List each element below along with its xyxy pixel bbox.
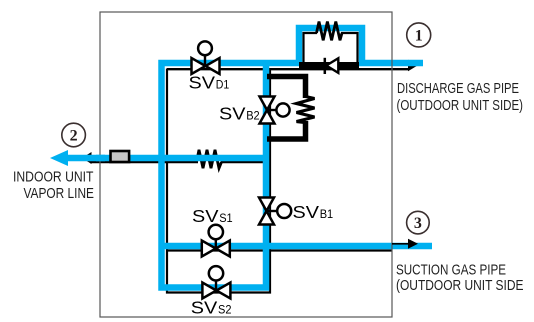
svg-text:D1: D1 <box>216 78 230 92</box>
svg-text:S1: S1 <box>219 211 233 225</box>
wire: discharge gas pipe (black base line) <box>167 68 409 70</box>
svg-text:(OUTDOOR UNIT SIDE: (OUTDOOR UNIT SIDE <box>396 278 524 294</box>
wire: blue flow path (discharge loop, left riser, SVS2 branch, right riser) <box>162 28 424 288</box>
svg-text:VAPOR LINE: VAPOR LINE <box>24 186 95 202</box>
wire: vapor line black base <box>90 161 198 163</box>
node 2 (vapor port circle) <box>62 123 86 147</box>
wire: suction line black base (inside box) <box>167 249 392 251</box>
wire: check valve bypass loop (thin black top path) <box>304 33 318 65</box>
svg-text:INDOOR UNIT: INDOOR UNIT <box>13 169 94 185</box>
wire: blue vapor line to indoor unit <box>66 155 266 162</box>
outdoor unit boundary box <box>100 12 392 317</box>
svg-text:SUCTION GAS PIPE: SUCTION GAS PIPE <box>396 263 506 279</box>
svg-text:SV: SV <box>189 73 216 93</box>
wire: discharge arrowhead <box>408 60 418 72</box>
svg-text:B1: B1 <box>320 207 334 221</box>
check valve (allows reverse flow) <box>324 58 327 74</box>
wire: blue suction line <box>162 243 433 250</box>
wire: check valve path (thick black) <box>299 62 359 68</box>
strainer/filter on vapor line <box>111 151 130 162</box>
capillary tube (vertical zigzag) on SVB2 loop <box>297 97 315 123</box>
svg-text:DISCHARGE GAS PIPE: DISCHARGE GAS PIPE <box>397 81 519 97</box>
svg-text:SV: SV <box>219 104 246 124</box>
wire: blue vapor line arrowhead (to indoor unit) <box>50 150 68 166</box>
solenoid valve SVB1 <box>259 198 291 225</box>
svg-text:SV: SV <box>192 206 219 226</box>
wire: blue patch over border at vapor crossing <box>96 155 105 162</box>
svg-text:1: 1 <box>415 28 423 45</box>
node 1 (discharge port circle) <box>407 23 431 47</box>
svg-text:SV: SV <box>191 298 218 318</box>
wire: vapor line black arrowhead <box>82 152 92 164</box>
node 3 (suction port circle) <box>407 211 430 234</box>
wire: suction arrow outside box <box>392 243 409 245</box>
solenoid valve SVD1 <box>192 41 220 74</box>
wire: left riser + SVS2 branch + right riser (black base) <box>167 69 270 293</box>
svg-text:3: 3 <box>414 215 422 232</box>
svg-text:B2: B2 <box>246 109 260 123</box>
capillary tube (zigzag) on bypass loop top <box>317 22 343 41</box>
svg-text:2: 2 <box>70 128 78 145</box>
capillary tube (zigzag) on vapor line <box>197 150 222 168</box>
solenoid valve SVS1 <box>202 225 230 257</box>
solenoid valve SVS2 <box>202 266 230 298</box>
svg-text:S2: S2 <box>218 303 232 317</box>
solenoid valve SVB2 <box>260 97 290 124</box>
svg-text:SV: SV <box>293 202 320 222</box>
wire: SVB2 bypass loop (thick black) <box>267 77 306 99</box>
svg-text:(OUTDOOR UNIT SIDE): (OUTDOOR UNIT SIDE) <box>397 98 524 114</box>
